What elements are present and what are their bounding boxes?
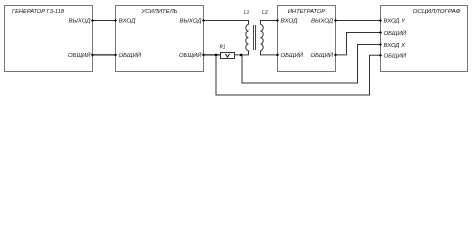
- block УСИЛИТЕЛЬ: [116, 6, 204, 72]
- block ОСЦИЛЛОГРАФ: [381, 6, 468, 72]
- svg-text:ИНТЕГРАТОР: ИНТЕГРАТОР: [288, 9, 326, 15]
- svg-text:ВХОД X: ВХОД X: [384, 43, 407, 49]
- terminal integrator ВХОД: [276, 19, 279, 22]
- svg-text:R1: R1: [220, 45, 226, 51]
- wire amplifier ОБЩИЙ to R1 left: [204, 54, 221, 56]
- svg-text:ОБЩИЙ: ОБЩИЙ: [384, 52, 407, 60]
- terminal integrator ОБЩИЙ left: [276, 53, 279, 56]
- wire ground node to oscilloscope lower ОБЩИЙ (outer loop): [216, 55, 381, 95]
- wire amplifier ВЫХОД to L1 top: [204, 21, 249, 25]
- junction node at ground rail x216: [215, 54, 218, 57]
- svg-text:ВЫХОД: ВЫХОД: [311, 19, 333, 25]
- resistor R1: [220, 45, 235, 59]
- inductor L1 (primary winding): [244, 10, 249, 51]
- wire generator ВЫХОД to amplifier ВХОД: [93, 20, 116, 22]
- terminal integrator ОБЩИЙ right: [334, 53, 337, 56]
- svg-text:ОБЩИЙ: ОБЩИЙ: [119, 51, 142, 59]
- svg-text:ОБЩИЙ: ОБЩИЙ: [179, 51, 202, 59]
- svg-text:ВХОД Y: ВХОД Y: [384, 19, 407, 25]
- junction node after R1 x241: [240, 54, 243, 57]
- terminal oscilloscope ОБЩИЙ upper: [379, 31, 382, 34]
- svg-text:ОСЦИЛЛОГРАФ: ОСЦИЛЛОГРАФ: [413, 9, 461, 15]
- terminal generator ОБЩИЙ: [91, 53, 94, 56]
- terminal generator ВЫХОД: [91, 19, 94, 22]
- svg-text:ГЕНЕРАТОР Г3-118: ГЕНЕРАТОР Г3-118: [12, 9, 65, 15]
- block ИНТЕГРАТОР: [278, 6, 336, 72]
- terminal amplifier ОБЩИЙ left: [114, 53, 117, 56]
- wire node after R1 to oscilloscope ВХОД X (inner loop): [242, 45, 381, 84]
- svg-text:L2: L2: [262, 10, 268, 16]
- wire generator ОБЩИЙ to amplifier ОБЩИЙ: [93, 54, 116, 56]
- terminal integrator ВЫХОД: [334, 19, 337, 22]
- svg-text:УСИЛИТЕЛЬ: УСИЛИТЕЛЬ: [140, 9, 177, 15]
- terminal oscilloscope ВХОД Y: [379, 19, 382, 22]
- wire L2 top to integrator ВХОД: [261, 21, 278, 25]
- transformer core: [254, 25, 256, 50]
- wire integrator right ОБЩИЙ up to oscilloscope ОБЩИЙ: [336, 33, 381, 55]
- svg-text:ВЫХОД: ВЫХОД: [180, 19, 202, 25]
- wire R1 right to L1 bottom: [235, 51, 249, 55]
- wire integrator ВЫХОД to oscilloscope ВХОД Y: [336, 20, 381, 22]
- terminal oscilloscope ОБЩИЙ lower: [379, 54, 382, 57]
- svg-text:ВЫХОД: ВЫХОД: [69, 19, 91, 25]
- svg-text:ВХОД: ВХОД: [281, 19, 298, 25]
- inductor L2 (secondary winding): [261, 10, 268, 51]
- terminal amplifier ВЫХОД: [202, 19, 205, 22]
- svg-text:ОБЩИЙ: ОБЩИЙ: [68, 51, 91, 59]
- terminal amplifier ОБЩИЙ right: [202, 53, 205, 56]
- wire L2 bottom to integrator ОБЩИЙ: [261, 51, 278, 55]
- svg-text:ОБЩИЙ: ОБЩИЙ: [311, 51, 334, 59]
- svg-text:ОБЩИЙ: ОБЩИЙ: [281, 51, 304, 59]
- block ГЕНЕРАТОР Г3-118: [5, 6, 93, 72]
- svg-text:ОБЩИЙ: ОБЩИЙ: [384, 29, 407, 37]
- terminal oscilloscope ВХОД X: [379, 43, 382, 46]
- svg-text:L1: L1: [244, 10, 249, 16]
- terminal amplifier ВХОД: [114, 19, 117, 22]
- svg-text:ВХОД: ВХОД: [119, 19, 136, 25]
